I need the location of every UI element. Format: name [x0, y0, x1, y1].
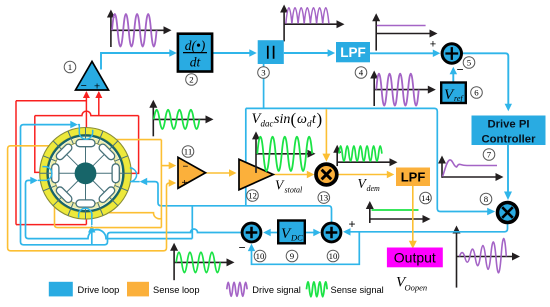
- wire red net A vertical amp- to gyro N electrode: [85, 92, 87, 128]
- arrow into LPF4: [328, 49, 336, 57]
- wire sense to amp11 minus input: [161, 165, 169, 167]
- wire VDC to adder 10R: [305, 232, 319, 234]
- svg-text:Drive signal: Drive signal: [252, 285, 301, 295]
- arrow Vref into summer 5: [450, 67, 458, 75]
- legend drive loop swatch: [49, 282, 73, 297]
- svg-text:Drive PI: Drive PI: [487, 119, 529, 131]
- arrow red into amp plus input: [95, 91, 102, 98]
- svg-text:): ): [317, 110, 323, 129]
- svg-text:11: 11: [184, 146, 192, 156]
- svg-text:2: 2: [189, 74, 193, 84]
- arrow into summer 5: [433, 50, 441, 58]
- svg-text:−: −: [456, 63, 463, 77]
- wire D2 E electrode entry and loop around spoke: [130, 168, 140, 182]
- amplifier A3 (node 12): [239, 159, 273, 190]
- multiplier circle (node 8): [498, 203, 518, 223]
- svg-text:Sense signal: Sense signal: [331, 285, 384, 295]
- PI step-response curve (purple): [443, 160, 498, 177]
- label node 8: [480, 193, 492, 205]
- arrow into differentiator block: [169, 49, 177, 57]
- Output block: [387, 248, 443, 268]
- svg-text:LPF: LPF: [401, 170, 426, 185]
- wire D2 bottom horizontal with hop then up to W: [26, 180, 193, 238]
- svg-text:stotal: stotal: [285, 186, 304, 195]
- arrow into adder 10L bottom minus input: [248, 244, 255, 252]
- wire drive branch vertical to push-pull net: [245, 108, 247, 205]
- label node 7: [483, 149, 495, 161]
- arrow VDC into adder 10R: [313, 229, 321, 236]
- wire red net A left vertical: [15, 101, 17, 225]
- arrow D2 into gyro E drive electrode: [140, 178, 148, 186]
- svg-text:14: 14: [421, 193, 430, 203]
- gyroscope outer ring: [40, 128, 132, 220]
- wire red net A stub to gyro S electrode: [85, 218, 87, 224]
- legend sense signal squiggle: [307, 282, 328, 297]
- wire abs block to LPF4: [284, 52, 333, 54]
- wire differentiator to abs block: [212, 52, 254, 54]
- svg-text:ω: ω: [297, 112, 307, 127]
- sense pickoff plot sine (green): [154, 110, 200, 129]
- gyroscope comb electrodes: [52, 140, 120, 208]
- wire sense NW electrode to far left and bottom: [8, 146, 170, 251]
- svg-text:10: 10: [256, 251, 265, 261]
- wire drive branch down from abs input: [263, 62, 265, 108]
- label node 14: [420, 192, 432, 204]
- svg-text:4: 4: [359, 67, 364, 77]
- wire red net B left vertical to gyro W electrode: [35, 116, 41, 173]
- wire Vdac sine down into multiplier 13: [325, 109, 327, 159]
- wire multiplier 13 output Vdem to LPF14: [338, 174, 391, 176]
- LPF block (node 4): [336, 42, 370, 62]
- wire Drive PI controller to multiplier 8: [507, 145, 509, 197]
- svg-text:+: +: [430, 39, 436, 51]
- summer circle (node 5): [442, 44, 461, 63]
- reference sine plot (node 4) axes: [374, 77, 429, 107]
- label node 10: [327, 250, 339, 262]
- wire sense SW electrode down and right: [55, 207, 162, 228]
- arrow drive branch into multiplier 8: [487, 208, 495, 215]
- amplifier A1 (charge amp, node 1): [76, 62, 109, 91]
- wire LPF4 to summer 5: [370, 52, 438, 54]
- label node 11: [182, 146, 194, 158]
- arrow into Drive PI controller: [505, 104, 512, 112]
- adder circle left (node 10L): [242, 223, 261, 242]
- svg-text:d(•): d(•): [185, 38, 206, 53]
- wire summer 5 to Drive PI controller: [463, 53, 508, 109]
- arrow sense into amp11 minus: [169, 162, 177, 170]
- gyroscope spokes and ring ticks: [40, 128, 132, 220]
- svg-text:sin: sin: [274, 112, 290, 127]
- label node 5: [463, 57, 475, 69]
- svg-text:dac: dac: [261, 119, 274, 129]
- reference sine plot sine (purple): [376, 74, 418, 106]
- wire D1 adder 10L output with hop over D2: [21, 125, 242, 245]
- wire D1 N electrode entry and loop around spoke: [78, 125, 93, 140]
- wire D2 W electrode entry and loop around spoke: [38, 167, 52, 181]
- svg-text:Drive loop: Drive loop: [78, 285, 120, 295]
- sense feedback plot sine (green): [176, 252, 220, 272]
- svg-text:Output: Output: [394, 249, 436, 265]
- svg-text:13: 13: [319, 193, 328, 203]
- wire D1 S electrode entry and loop around spoke: [79, 208, 92, 225]
- wire D1 branch to gyro S electrode: [91, 227, 93, 245]
- wire D2 branch down to W electrode run: [191, 206, 193, 239]
- svg-text:dt: dt: [190, 55, 202, 70]
- PI step-response plot (node 7) axes: [442, 162, 497, 178]
- svg-text:+: +: [94, 80, 100, 92]
- svg-text:12: 12: [248, 190, 257, 200]
- label node 4: [355, 67, 367, 79]
- multiplier circle (node 13): [316, 164, 337, 185]
- arrow into amp12: [229, 169, 237, 177]
- wire sense vertical bus at x161: [160, 140, 162, 228]
- rectified signal plot (after abs) axes: [284, 11, 337, 42]
- svg-text:−: −: [238, 241, 245, 255]
- rectified signal plot bumps (purple): [286, 8, 329, 24]
- gyroscope center hub: [75, 162, 97, 184]
- wire sense NE electrode to amp11 vertical: [116, 139, 161, 141]
- legend sense loop swatch: [127, 282, 149, 297]
- demodulated DC level line (green): [372, 209, 419, 211]
- adder circle right (node 10R): [322, 223, 341, 242]
- wire sense SSE electrode with arc join: [109, 213, 161, 219]
- open-loop output plot (bottom right) axes: [457, 232, 514, 288]
- legend drive signal squiggle: [227, 282, 247, 296]
- label node 10: [254, 250, 266, 262]
- demodulated DC plot (node 14) axes: [370, 207, 424, 223]
- wire red net B right vertical to gyro E electrode: [131, 116, 139, 174]
- svg-text:5: 5: [467, 57, 472, 67]
- wire red net B horizontal with hop over net A: [35, 111, 139, 116]
- svg-text:8: 8: [484, 194, 489, 204]
- svg-text:−: −: [183, 162, 189, 173]
- label node 3: [258, 67, 270, 79]
- svg-text:9: 9: [290, 251, 295, 261]
- V_stotal plot sine (green): [257, 137, 312, 171]
- svg-text:+: +: [348, 217, 355, 231]
- arrow into Output block: [409, 241, 417, 249]
- absolute value block (node 3): [258, 40, 284, 64]
- arrow red into amp minus input: [83, 91, 90, 98]
- svg-text:(: (: [291, 110, 297, 129]
- svg-text:10: 10: [329, 251, 338, 261]
- svg-text:Sense loop: Sense loop: [153, 285, 200, 295]
- svg-text:dem: dem: [367, 184, 381, 193]
- svg-text:7: 7: [487, 149, 492, 159]
- drive signal plot (node 1 output) axes: [111, 16, 165, 48]
- arrow D1 into gyro N drive electrode: [70, 121, 78, 129]
- svg-text:LPF: LPF: [340, 45, 366, 60]
- svg-text:−: −: [81, 80, 87, 92]
- wire drive branch horizontal y108: [246, 108, 493, 211]
- svg-text:Controller: Controller: [482, 133, 537, 145]
- wire amp11 output to amp12: [206, 172, 234, 174]
- arrow VDC into adder 10L: [263, 229, 271, 236]
- svg-text:1: 1: [68, 62, 72, 72]
- arrow sense into amp11 plus: [169, 179, 177, 187]
- svg-text:DC: DC: [290, 233, 303, 243]
- label node 2: [186, 74, 198, 86]
- svg-text:6: 6: [474, 87, 479, 97]
- V_dem modulated plot (node 13 output) axes: [337, 151, 390, 166]
- LPF block (node 14): [396, 168, 430, 187]
- amplitude DC plot (after LPF4) axes: [376, 19, 430, 50]
- label node 13: [318, 192, 330, 204]
- amplifier A2 (node 11): [178, 157, 206, 188]
- arrow into adder 10R right input: [343, 228, 351, 236]
- sense feedback plot (bottom) axes: [174, 249, 227, 280]
- Vref block (node 6): [441, 83, 466, 104]
- V_dem modulated plot sine (green): [339, 146, 382, 161]
- arrow PI output into multiplier 8: [504, 192, 512, 201]
- wire red net B vertical to amp plus: [98, 92, 100, 115]
- wire red net A horizontal (amp- to far left): [16, 100, 86, 102]
- svg-text:+: +: [182, 178, 188, 189]
- amplitude DC level line (purple): [377, 25, 426, 27]
- arrow into multiplier 13: [307, 171, 315, 178]
- svg-text:Oopen: Oopen: [405, 283, 428, 293]
- VDC block (node 9): [278, 221, 305, 244]
- label node 9: [286, 250, 298, 262]
- V_stotal plot (node 12) axes: [256, 137, 309, 173]
- wire red net A bottom horizontal: [16, 224, 86, 226]
- drive signal plot sine (purple): [112, 14, 157, 47]
- wire multiplier 8 output down and left to adder 10R: [345, 224, 507, 232]
- Drive PI Controller block: [472, 116, 546, 146]
- wire VDC to adder 10L: [266, 232, 279, 234]
- arrow Vdac into multiplier 13: [322, 154, 330, 162]
- wire Vref to summer 5: [452, 69, 454, 81]
- open-loop growing sine (purple): [460, 238, 507, 272]
- wire D2 adder 10R output up and left: [147, 182, 332, 222]
- arrow D1 into gyro S drive electrode: [88, 225, 96, 233]
- label node 1: [64, 61, 76, 73]
- wire drive main chain amp to differentiator: [101, 53, 175, 70]
- arrow into LPF14: [387, 171, 395, 178]
- differentiator block d()/dt (node 2): [178, 34, 212, 72]
- wire amp12 output Vstotal to multiplier 13: [273, 174, 311, 176]
- arrow D2 into gyro W drive electrode: [30, 177, 38, 185]
- wire feedback loop to adder 10L minus: [252, 232, 360, 264]
- arrow into abs block: [249, 49, 256, 57]
- label node 6: [471, 87, 483, 99]
- wire LPF14 down to Output: [412, 186, 414, 245]
- label node 12: [247, 190, 259, 202]
- svg-text:3: 3: [261, 67, 266, 77]
- sense pickoff plot (node 11 input) axes: [153, 106, 206, 137]
